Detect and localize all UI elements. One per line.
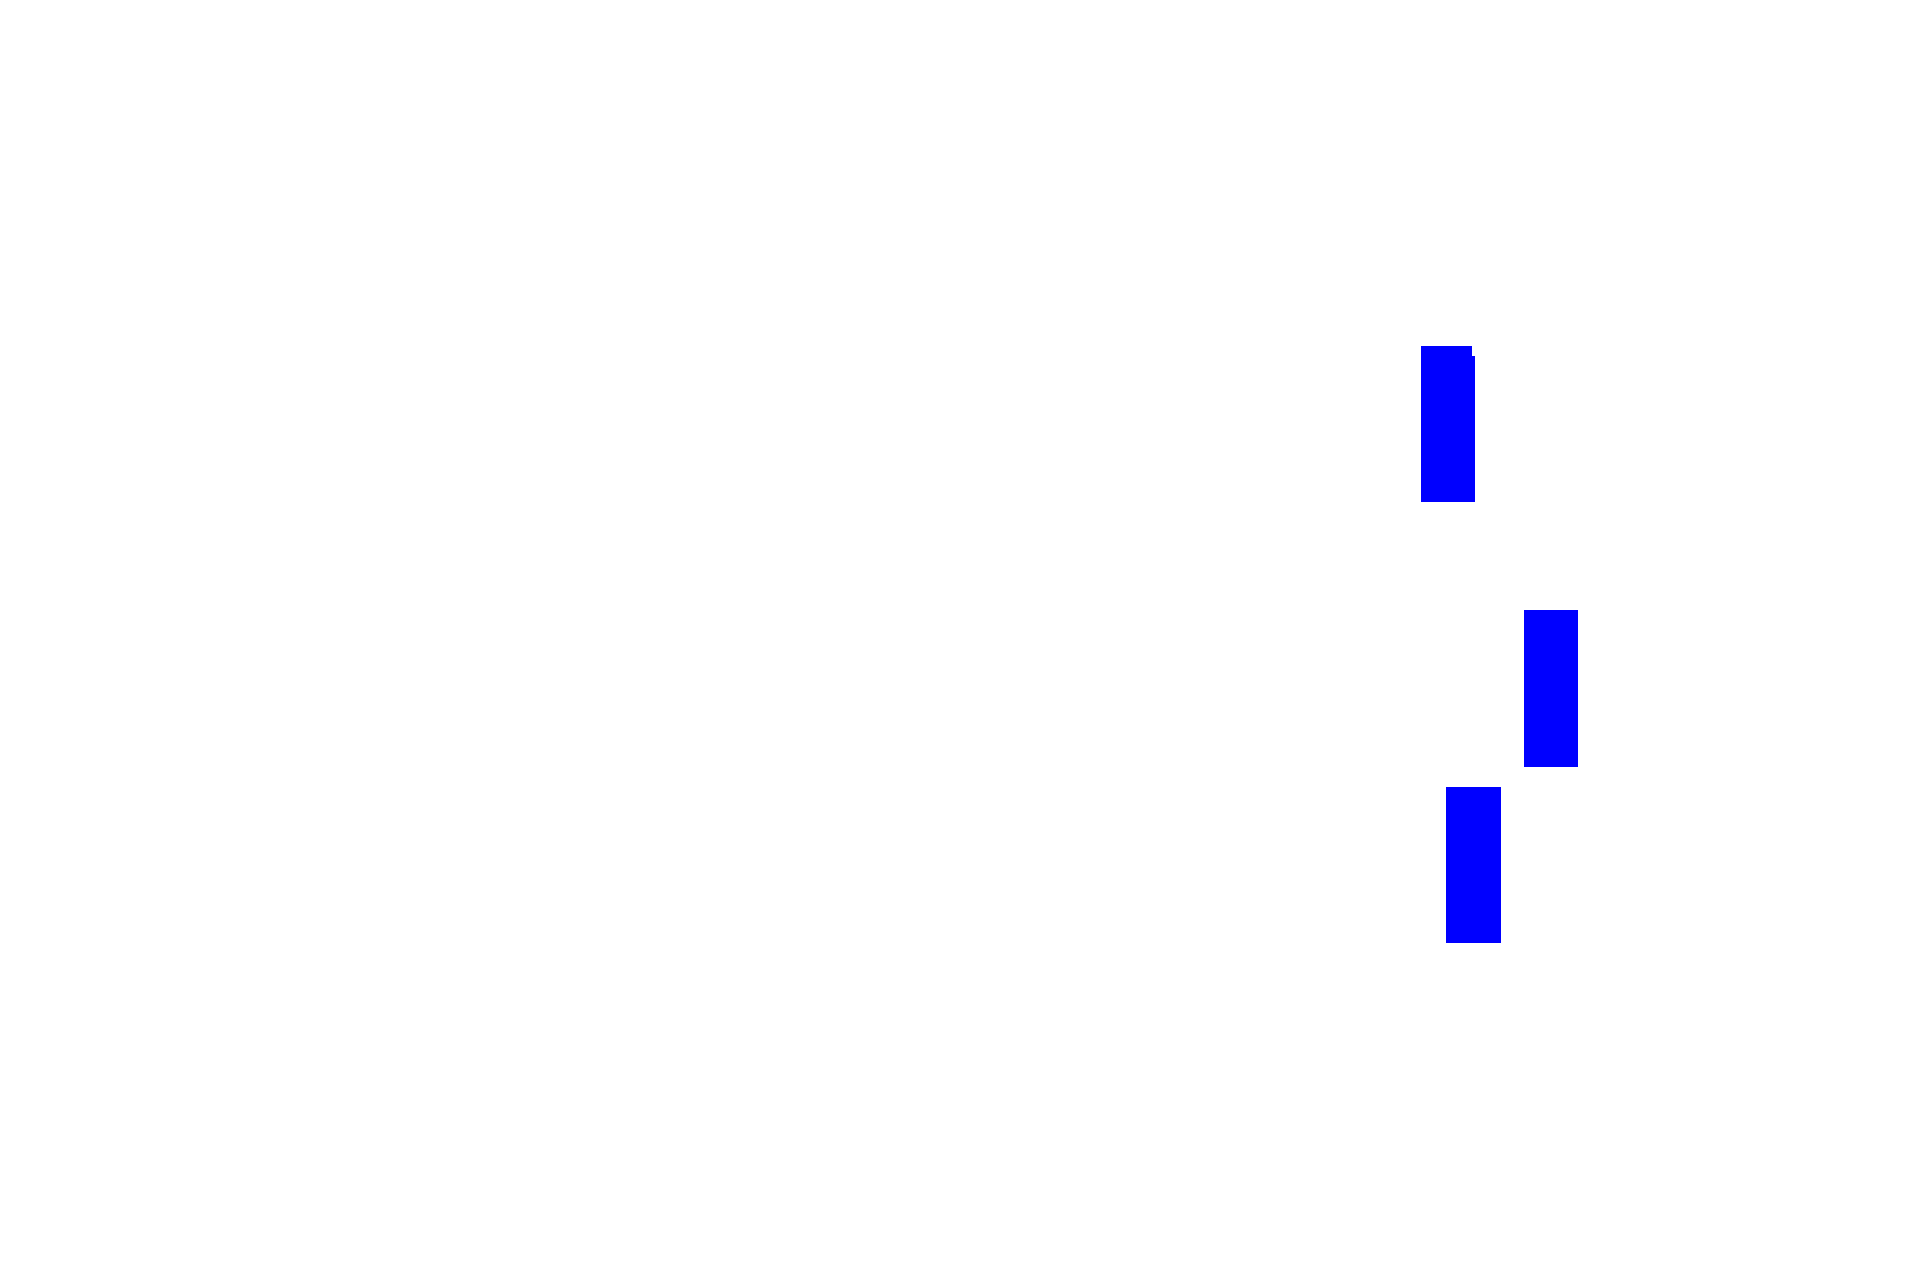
blue bar 2 (middle right) (1524, 610, 1578, 767)
blue bar 1 front rect (1421, 346, 1472, 502)
blue bar 1 (upper, stepped top-right corner) : back rect (1424, 356, 1475, 502)
blue bar 3 (lower) (1446, 787, 1501, 943)
